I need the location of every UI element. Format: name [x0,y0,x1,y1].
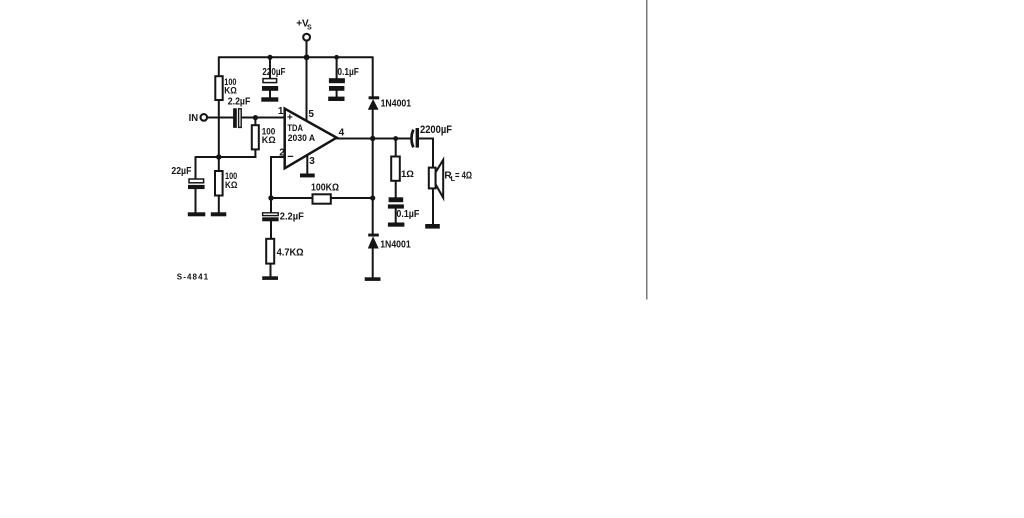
label 100 KOhm (lower bias) [225,170,238,190]
wire: 1 ohm resistor to 0.1uF cap [395,181,397,199]
capacitor 220uF supply: solid bottom plate [262,86,278,91]
svg-text:4: 4 [339,128,345,139]
wire: D1 anode down through output node to feedback node and D2 [372,109,374,235]
svg-text:1Ω: 1Ω [401,169,414,180]
svg-text:2: 2 [279,147,285,158]
op-amp U1 TDA2030A triangle [285,109,337,169]
resistor 100K (lower bias divider) [215,171,223,196]
svg-text:KΩ: KΩ [224,84,237,95]
svg-text:KΩ: KΩ [262,134,276,145]
resistor 4.7K (feedback lower) [266,239,274,264]
svg-text:S-4841: S-4841 [177,273,209,282]
wire: 4.7K resistor to ground [270,263,272,278]
ground under 0.1uF Zobel [388,223,405,227]
svg-text:KΩ: KΩ [225,179,238,190]
junction: rail at 0.1uF [334,55,339,60]
wire: +Vs supply rail [219,56,373,58]
wire: pin 3 down to ground [306,152,308,175]
capacitor 0.1uF Zobel: top plate [389,197,404,202]
resistor 100K (input bias feed) [252,125,259,149]
svg-text:= 4Ω: = 4Ω [455,171,472,182]
capacitor 2200uF output: curved plate [411,130,413,148]
wire: +Vs terminal down to pin 5 [306,41,308,123]
wire: rail left corner down to R1 [218,56,220,77]
wire: R3 bottom to bias wire [254,149,256,158]
svg-text:0.1µF: 0.1µF [396,209,419,220]
capacitor 2.2uF input coupling: solid plate [233,108,237,128]
ground under 22uF [188,212,206,216]
wire: output node down to 1 ohm resistor [395,139,397,158]
svg-text:100KΩ: 100KΩ [311,183,339,194]
svg-text:1N4001: 1N4001 [380,239,411,250]
resistor 1 ohm (Zobel) [391,157,400,181]
svg-text:5: 5 [308,109,314,120]
terminal IN [201,114,208,121]
speaker RL driver rectangle [429,168,436,189]
wire: feedback resistor to output branch [330,197,373,199]
capacitor 22uF bias bypass: outlined top plate [189,179,204,183]
wire: bias node horizontal run [196,156,257,158]
junction: output at 1 ohm [393,136,398,141]
wire: 0.1uF cap to ground [395,208,397,224]
svg-text:2200µF: 2200µF [420,124,452,136]
junction: feedback node [268,195,273,200]
diode D2 1N4001 cathode bar [368,234,379,237]
svg-text:3: 3 [309,156,315,167]
diode D1 1N4001 cathode bar [369,96,380,99]
wire: rail to 0.1uF cap [336,57,338,79]
wire: 0.1uF cap to ground [336,91,338,99]
label RL = 4 ohm [444,171,472,184]
capacitor 220uF supply: outlined top plate [263,79,277,83]
wire: feedback node to 100K feedback resistor [270,197,313,199]
capacitor 2.2uF feedback: outlined top plate [263,213,279,216]
capacitor 0.1uF Zobel: bottom plate [388,204,404,208]
svg-text:TDA: TDA [287,123,303,133]
capacitor 2.2uF feedback: solid bottom plate [262,217,278,221]
svg-text:2.2µF: 2.2µF [228,97,251,108]
resistor 100K (feedback, horizontal) [313,194,331,203]
wire: 22uF cap to ground [195,189,197,214]
wire: rail to 220uF cap [269,57,271,79]
wire: IN terminal to input cap [207,117,234,119]
wire: speaker bottom to ground [432,188,434,225]
svg-text:IN: IN [189,113,199,124]
junction: feedback at diode line [370,195,375,200]
op-amp label TDA 2030 A [287,123,315,143]
svg-text:2.2µF: 2.2µF [280,212,304,223]
svg-text:0.1µF: 0.1µF [337,67,359,78]
junction: output at diode line [370,136,375,141]
capacitor 22uF bias bypass: solid bottom plate [188,185,205,189]
ground under 4.7K [262,276,278,280]
ground under speaker [425,224,440,229]
resistor 100K (upper bias divider) [215,76,222,100]
label 100 KOhm (input bias feed) [262,125,276,145]
junction: rail at 220uF [268,55,273,60]
wire: 2.2uF cap to 4.7K resistor [270,221,272,240]
svg-text:220µF: 220µF [262,67,285,78]
svg-text:22µF: 22µF [171,166,191,177]
wire: pin 2 down to feedback node [270,156,272,199]
wire: D2 bottom to ground [372,248,374,279]
terminal +Vs [303,34,310,41]
wire: R1 bottom through IN line to bias node and R2 [218,100,220,172]
capacitor 0.1uF supply: top plate [329,78,345,83]
svg-text:1: 1 [278,106,284,117]
svg-text:1N4001: 1N4001 [381,99,412,110]
wire: R2 bottom to ground [218,195,220,214]
wire: op-amp output pin 4 to 2200uF cap [337,138,411,140]
svg-text:−: − [287,151,293,163]
junction: rail at +Vs [304,54,310,60]
diode D2 1N4001 triangle [368,236,379,248]
wire: rail right corner down to diode D1 [372,56,374,97]
speaker RL horn [436,160,444,198]
svg-text:4.7KΩ: 4.7KΩ [277,247,304,258]
label 100 KOhm (upper bias) [224,76,237,95]
ground under 0.1uF supply [328,97,344,101]
capacitor 0.1uF supply: bottom plate [329,86,344,91]
capacitor 2200uF output: solid plate [416,128,419,148]
junction: node A input [253,115,258,120]
wire: feedback node down to 2.2uF cap [270,197,272,213]
wire: input cap to pin 1 of op-amp [241,117,284,119]
wire: bias node to 22uF cap [195,156,197,178]
svg-text:2030 A: 2030 A [288,133,316,143]
wire: 220uF cap to ground [269,91,271,99]
capacitor 2.2uF input coupling: outlined plate [239,109,242,128]
ground under lower 100K [211,212,227,216]
junction: bias node [216,154,221,159]
diode D1 1N4001 triangle [368,99,379,110]
ground under D2 [365,277,381,281]
svg-text:S: S [307,25,312,32]
wire: 2200uF cap to speaker corner [418,139,433,169]
label +Vs [296,19,312,32]
scan divider line [646,0,648,300]
wire: pin 2 horizontal [270,156,285,158]
ground under 220uF [261,97,278,101]
wire: node A down to R3 [254,118,256,126]
ground under pin 3 [300,174,315,178]
